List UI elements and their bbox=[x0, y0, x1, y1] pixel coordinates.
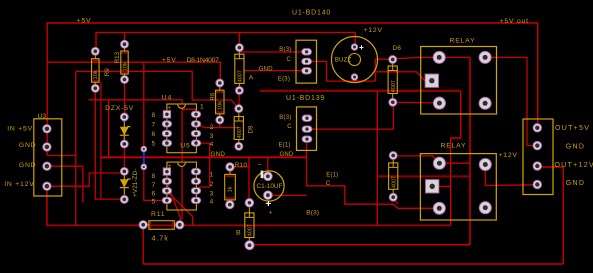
svg-text:+V21-ZD-: +V21-ZD- bbox=[132, 169, 139, 197]
svg-text:6: 6 bbox=[152, 131, 156, 138]
svg-text:+: + bbox=[265, 199, 271, 210]
svg-text:3: 3 bbox=[210, 190, 214, 197]
svg-text:+5V: +5V bbox=[162, 57, 177, 64]
svg-text:+: + bbox=[359, 43, 364, 52]
svg-text:BUZZ: BUZZ bbox=[335, 56, 352, 63]
svg-text:U4: U4 bbox=[162, 95, 172, 102]
svg-text:E(3): E(3) bbox=[278, 77, 290, 83]
svg-text:+: + bbox=[269, 211, 273, 217]
svg-text:+5V out: +5V out bbox=[500, 18, 529, 25]
svg-text:8: 8 bbox=[152, 112, 156, 119]
svg-text:R11: R11 bbox=[151, 211, 165, 218]
svg-text:5: 5 bbox=[152, 199, 156, 206]
svg-text:D8-1N4007: D8-1N4007 bbox=[187, 57, 220, 64]
svg-text:4007: 4007 bbox=[238, 70, 244, 82]
svg-text:E(1): E(1) bbox=[326, 172, 338, 178]
svg-text:R6: R6 bbox=[210, 92, 217, 100]
svg-text:OUT+12V: OUT+12V bbox=[555, 162, 593, 169]
svg-text:D9: D9 bbox=[248, 125, 255, 133]
svg-text:+12V: +12V bbox=[499, 152, 518, 159]
svg-text:7: 7 bbox=[152, 121, 156, 128]
svg-text:RELAY: RELAY bbox=[441, 143, 467, 150]
svg-text:2: 2 bbox=[210, 181, 214, 188]
svg-text:1: 1 bbox=[210, 172, 214, 179]
svg-text:GND: GND bbox=[566, 143, 585, 150]
svg-text:C1-10UF: C1-10UF bbox=[257, 183, 283, 190]
svg-text:2: 2 bbox=[210, 124, 214, 131]
svg-text:7: 7 bbox=[152, 182, 156, 189]
svg-text:10k: 10k bbox=[122, 62, 128, 71]
svg-text:C: C bbox=[287, 124, 292, 130]
svg-text:A: A bbox=[249, 75, 254, 82]
svg-text:GND: GND bbox=[566, 180, 585, 187]
svg-text:C: C bbox=[326, 181, 331, 187]
svg-text:1k: 1k bbox=[228, 186, 234, 192]
svg-text:D6: D6 bbox=[393, 45, 402, 52]
svg-text:RELAY: RELAY bbox=[450, 38, 476, 45]
svg-text:+12V: +12V bbox=[364, 27, 383, 34]
svg-text:IN +12V: IN +12V bbox=[4, 181, 34, 188]
svg-text:GND: GND bbox=[280, 152, 294, 158]
svg-text:R9: R9 bbox=[104, 68, 111, 76]
svg-text:+5V: +5V bbox=[77, 17, 92, 24]
svg-text:GND: GND bbox=[19, 142, 37, 149]
svg-text:1: 1 bbox=[200, 104, 204, 111]
svg-text:4007: 4007 bbox=[248, 224, 254, 236]
svg-text:B(3): B(3) bbox=[306, 210, 319, 217]
svg-text:5: 5 bbox=[152, 141, 156, 148]
svg-text:E(1): E(1) bbox=[279, 143, 291, 149]
svg-text:GND: GND bbox=[19, 162, 37, 169]
svg-text:3: 3 bbox=[210, 133, 214, 140]
svg-text:C: C bbox=[287, 57, 292, 63]
svg-text:OUT+5V: OUT+5V bbox=[555, 125, 590, 132]
svg-text:IN +5V: IN +5V bbox=[7, 125, 33, 132]
svg-text:B(3): B(3) bbox=[279, 47, 291, 53]
svg-text:4: 4 bbox=[210, 199, 214, 206]
svg-text:U1-BD140: U1-BD140 bbox=[292, 9, 331, 16]
svg-text:GND: GND bbox=[259, 66, 273, 72]
svg-text:4.7k: 4.7k bbox=[152, 233, 169, 242]
svg-text:R10: R10 bbox=[235, 162, 247, 169]
svg-text:B: B bbox=[236, 229, 241, 236]
svg-text:10k: 10k bbox=[217, 101, 223, 110]
svg-text:4007: 4007 bbox=[237, 126, 243, 138]
svg-text:U1-BD139: U1-BD139 bbox=[286, 95, 325, 102]
svg-text:−: − bbox=[258, 162, 263, 169]
svg-text:B(3): B(3) bbox=[279, 115, 291, 121]
svg-text:10k: 10k bbox=[93, 70, 99, 79]
svg-text:DZX-5V: DZX-5V bbox=[105, 105, 134, 112]
svg-text:R13: R13 bbox=[114, 51, 121, 63]
svg-text:U3: U3 bbox=[38, 113, 47, 120]
svg-text:GND: GND bbox=[211, 151, 226, 158]
svg-text:4007: 4007 bbox=[391, 80, 397, 92]
svg-text:4007: 4007 bbox=[391, 176, 397, 188]
svg-text:6: 6 bbox=[152, 190, 156, 197]
svg-text:U5: U5 bbox=[180, 143, 190, 150]
svg-text:4: 4 bbox=[210, 141, 214, 148]
svg-text:8: 8 bbox=[152, 173, 156, 180]
